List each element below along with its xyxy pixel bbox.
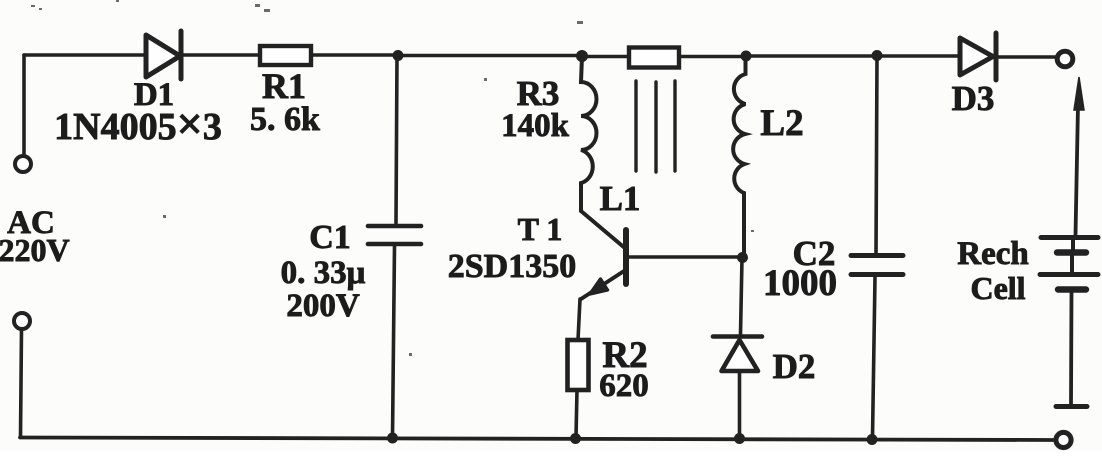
- svg-text:T 1: T 1: [518, 211, 563, 247]
- charge current arrow (points up): [1074, 77, 1084, 235]
- wire: node A to node B: [398, 54, 582, 58]
- diode D1: [146, 31, 181, 79]
- svg-text:L2: L2: [760, 103, 803, 144]
- wire: C2 bottom lead to bottom rail: [873, 277, 876, 438]
- resistor R2: [568, 340, 589, 390]
- diode D3: [960, 33, 996, 80]
- wire: emitter down to R2: [578, 299, 580, 340]
- terminal: output minus (open circle): [1056, 432, 1071, 447]
- node D (junction of top rail and C2): [872, 50, 883, 61]
- wire: node B to primary winding box: [582, 55, 628, 59]
- wire: T1 base to node F: [628, 255, 741, 259]
- wire: R1 to node A: [311, 53, 398, 57]
- node A (junction of R1, C1, top rail): [393, 50, 404, 61]
- svg-text:2SD1350: 2SD1350: [448, 248, 576, 285]
- svg-text:200V: 200V: [286, 288, 360, 324]
- wire: node C to node D: [746, 54, 877, 58]
- transistor T1 bar (base plate): [623, 230, 629, 284]
- svg-text:1000: 1000: [763, 263, 837, 304]
- wire: node D to D3 anode: [877, 54, 959, 58]
- wire: C1 top lead from node A: [396, 55, 397, 223]
- node E (junction C1 / bottom rail): [387, 433, 398, 444]
- transistor T1 emitter with arrow: [581, 271, 624, 299]
- wire: C1 bottom lead to bottom rail: [393, 246, 395, 437]
- capacitor C1: [368, 226, 421, 244]
- wire: AC neutral lead down to bottom rail: [21, 329, 22, 437]
- wire: D3 cathode to output plus terminal: [998, 55, 1057, 59]
- winding box (unlabeled series element on top rail): [629, 48, 679, 68]
- inductor R3/L1 primary winding (vertical coil): [581, 57, 597, 212]
- wire: winding to T1 collector (diagonal): [581, 211, 626, 249]
- svg-text:5. 6k: 5. 6k: [250, 101, 320, 138]
- node C (junction of top rail and L2): [741, 51, 752, 62]
- terminal: AC input upper (open circle): [15, 156, 31, 172]
- svg-text:620: 620: [599, 368, 649, 404]
- svg-text:1N4005×3: 1N4005×3: [54, 98, 222, 149]
- inductor L2 (vertical coil, feedback winding): [733, 56, 745, 257]
- battery bottom lead end bar: [1056, 404, 1087, 409]
- node B (junction of top rail and R3 winding): [576, 50, 588, 62]
- wire: D1 cathode to R1: [183, 53, 259, 57]
- node I (junction C2 / bottom rail): [867, 434, 878, 445]
- diode D2 (cathode bar on top, pointing up): [713, 337, 762, 372]
- svg-text:140k: 140k: [501, 108, 570, 144]
- resistor R1: [260, 46, 311, 65]
- svg-text:C1: C1: [309, 219, 351, 256]
- battery: rechargeable cell plates: [1040, 238, 1098, 290]
- svg-text:220V: 220V: [0, 232, 70, 268]
- terminal: output plus (open circle): [1057, 51, 1073, 67]
- wire: winding box to node C: [679, 55, 746, 59]
- wire: node F down to D2 cathode: [741, 258, 743, 334]
- capacitor C2: [851, 256, 903, 275]
- wire: AC live lead down from top rail: [22, 55, 26, 155]
- svg-text:L1: L1: [600, 179, 641, 218]
- svg-text:R1: R1: [262, 66, 306, 106]
- node H (junction D2 / bottom rail): [734, 433, 745, 444]
- node G (junction R2 / bottom rail): [570, 433, 581, 444]
- svg-text:D3: D3: [952, 79, 995, 118]
- svg-text:Cell: Cell: [970, 270, 1025, 306]
- wire: battery bottom lead: [1069, 292, 1073, 404]
- svg-text:0. 33μ: 0. 33μ: [281, 255, 366, 291]
- transformer core (three vertical lines): [636, 81, 675, 172]
- wire: bottom rail: [20, 438, 1053, 441]
- wire: R2 to bottom rail: [576, 390, 577, 437]
- node F (junction T1 base / L2 / D2): [737, 252, 748, 263]
- svg-text:D2: D2: [773, 347, 816, 386]
- svg-text:Rech: Rech: [957, 236, 1028, 272]
- wire: C2 top lead from node D: [876, 56, 877, 253]
- wire: top rail from AC input to D1 anode: [24, 53, 146, 57]
- terminal: AC input lower (open circle): [14, 313, 30, 329]
- wire: D2 anode to bottom rail: [738, 371, 742, 437]
